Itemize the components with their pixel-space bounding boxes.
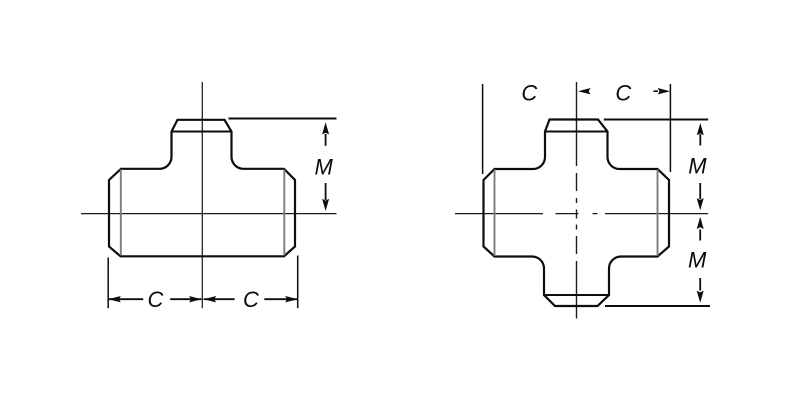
tee right C dimension line — [204, 298, 298, 300]
tee M extension line (top of branch) — [229, 118, 337, 120]
svg-text:C: C — [243, 287, 259, 312]
tee horizontal centerline — [81, 213, 337, 215]
cross left weld-bevel grey line — [494, 170, 496, 256]
tee M up arrow — [325, 134, 327, 146]
tee left C dimension line — [108, 298, 201, 300]
tee vertical centerline — [201, 82, 203, 308]
svg-text:M: M — [688, 248, 707, 273]
cross horizontal centerline (dash-dot) — [455, 213, 708, 215]
cross lower M up arrow — [699, 230, 701, 241]
cross vertical centerline (dash-dot) — [576, 82, 578, 319]
tee body outline — [109, 120, 295, 256]
tee M down arrow — [325, 183, 327, 200]
cross upper M down arrow — [699, 183, 701, 199]
tee branch bevel line — [171, 131, 232, 133]
cross C left-pointing arrow at centerline — [578, 88, 591, 94]
tee left weld-bevel grey line — [120, 170, 122, 256]
cross right weld-bevel grey line — [657, 170, 659, 256]
svg-text:C: C — [521, 80, 537, 105]
tee C left extension line — [107, 258, 109, 309]
cross lower M extension line (bottom of branch) — [605, 305, 710, 307]
cross upper M extension line — [604, 119, 708, 121]
svg-text:C: C — [615, 80, 631, 105]
cross C right extension line — [669, 84, 671, 172]
cross C left extension line — [482, 84, 484, 174]
svg-text:M: M — [315, 155, 334, 180]
cross C right-pointing arrow at right extension — [654, 90, 659, 92]
tee C right extension line — [297, 256, 299, 309]
cross upper M up arrow — [699, 134, 701, 146]
svg-text:C: C — [148, 287, 164, 312]
cross body outline — [484, 120, 670, 307]
svg-text:M: M — [688, 153, 707, 178]
cross top branch bevel line — [545, 131, 609, 133]
cross bottom branch bevel line — [544, 294, 609, 296]
tee right weld-bevel grey line — [283, 170, 285, 256]
cross lower M down arrow — [699, 278, 701, 291]
